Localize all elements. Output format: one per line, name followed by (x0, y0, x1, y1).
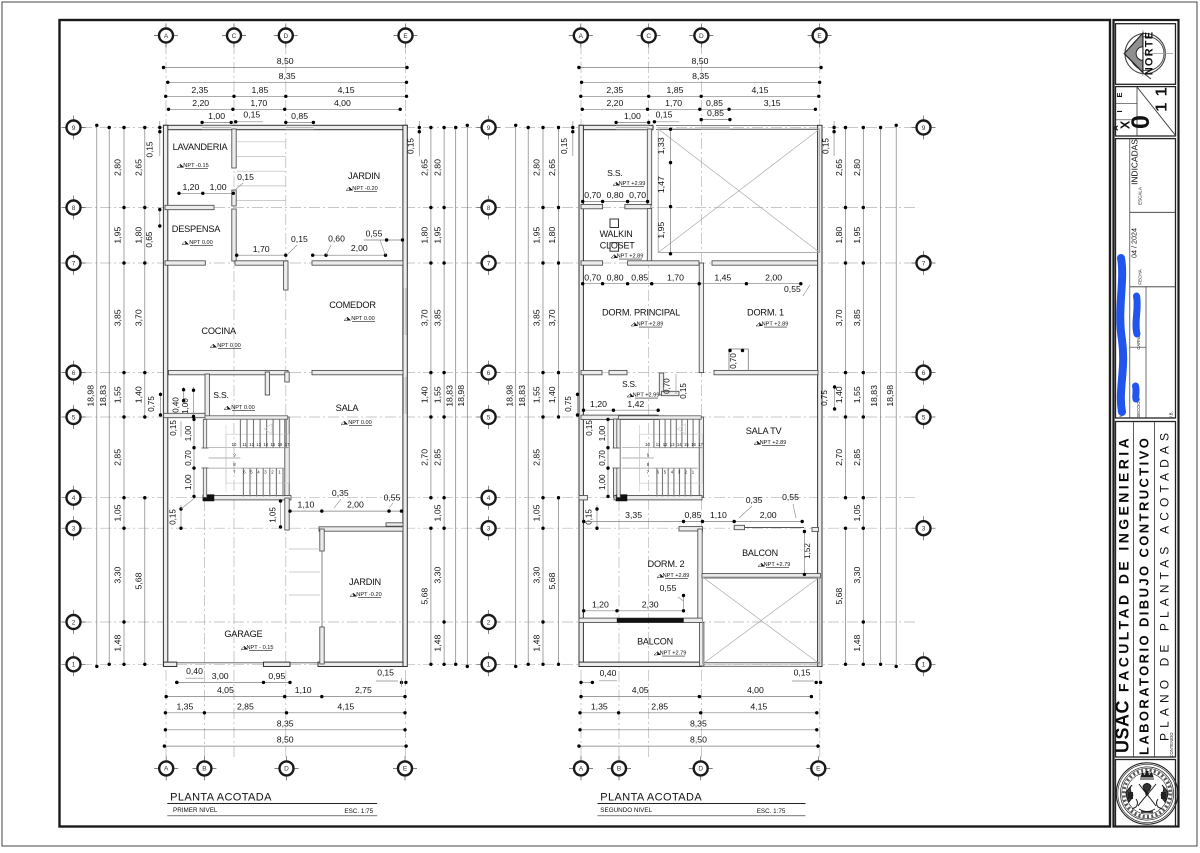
svg-text:2,65: 2,65 (133, 159, 143, 176)
svg-text:FECHA: FECHA (1138, 269, 1143, 284)
svg-text:2,80: 2,80 (433, 159, 443, 176)
svg-text:2,85: 2,85 (433, 449, 443, 466)
svg-text:18,83: 18,83 (869, 385, 879, 407)
svg-text:3,70: 3,70 (133, 309, 143, 326)
svg-text:2,80: 2,80 (532, 159, 542, 176)
svg-text:8,50: 8,50 (692, 56, 709, 66)
svg-text:0,15: 0,15 (407, 138, 416, 154)
svg-text:2,20: 2,20 (606, 98, 623, 108)
svg-text:0,40: 0,40 (186, 666, 203, 676)
svg-text:12: 12 (663, 442, 668, 447)
svg-text:0,15: 0,15 (585, 420, 594, 436)
svg-text:1,20: 1,20 (182, 182, 199, 192)
svg-text:0,15: 0,15 (656, 109, 673, 119)
svg-text:0,70: 0,70 (584, 272, 601, 282)
svg-text:7: 7 (487, 260, 491, 267)
svg-text:SALA: SALA (336, 403, 360, 413)
svg-text:1,05: 1,05 (268, 507, 277, 523)
svg-text:0,15: 0,15 (146, 141, 155, 157)
svg-text:3,85: 3,85 (113, 309, 123, 326)
svg-text:2,85: 2,85 (532, 449, 542, 466)
svg-text:0,55: 0,55 (384, 493, 401, 503)
svg-text:7: 7 (922, 260, 926, 267)
svg-text:0,15: 0,15 (679, 383, 688, 399)
svg-text:1,33: 1,33 (656, 137, 666, 154)
svg-text:USACFACULTAD DE INGENIERIA: USACFACULTAD DE INGENIERIA (1113, 435, 1133, 753)
svg-text:0,35: 0,35 (332, 488, 349, 498)
svg-text:8: 8 (487, 205, 491, 212)
svg-text:4,05: 4,05 (632, 685, 649, 695)
svg-text:0,80: 0,80 (607, 272, 624, 282)
svg-text:1,55: 1,55 (852, 386, 862, 403)
svg-text:11: 11 (242, 442, 247, 447)
svg-text:4,15: 4,15 (338, 85, 355, 95)
svg-text:C: C (232, 33, 237, 40)
svg-text:1,85: 1,85 (667, 85, 684, 95)
svg-text:0,15: 0,15 (377, 668, 394, 678)
svg-text:BALCON: BALCON (742, 548, 778, 558)
svg-text:5,68: 5,68 (133, 572, 143, 589)
svg-text:15: 15 (684, 442, 689, 447)
svg-text:S.S.: S.S. (622, 380, 637, 389)
svg-text:PRIMER NIVEL: PRIMER NIVEL (173, 807, 218, 814)
svg-text:8,50: 8,50 (690, 735, 707, 745)
svg-text:0,15: 0,15 (237, 172, 254, 182)
svg-text:0,85: 0,85 (631, 272, 648, 282)
svg-text:NPT +2.79: NPT +2.79 (764, 562, 791, 568)
svg-text:0,15: 0,15 (794, 668, 811, 678)
svg-text:NPT +2.99: NPT +2.99 (633, 393, 660, 399)
svg-text:1,48: 1,48 (433, 634, 443, 651)
svg-text:GARAGE: GARAGE (224, 629, 262, 639)
svg-text:5,68: 5,68 (834, 588, 844, 605)
svg-text:NPT +2.79: NPT +2.79 (660, 651, 687, 657)
svg-text:1 1: 1 1 (1154, 86, 1171, 111)
svg-text:3,85: 3,85 (532, 309, 542, 326)
svg-text:2,35: 2,35 (191, 85, 208, 95)
svg-text:1,10: 1,10 (710, 510, 727, 520)
svg-text:0,75: 0,75 (564, 396, 573, 412)
svg-text:11: 11 (656, 442, 661, 447)
svg-text:16: 16 (278, 442, 283, 447)
svg-text:6: 6 (487, 370, 491, 377)
svg-text:1,00: 1,00 (208, 111, 225, 121)
svg-text:3,30: 3,30 (852, 566, 862, 583)
svg-text:ESC. 1:75: ESC. 1:75 (344, 808, 373, 815)
svg-text:8: 8 (72, 205, 76, 212)
svg-text:3,30: 3,30 (532, 566, 542, 583)
svg-text:17: 17 (285, 442, 290, 447)
svg-text:SEGUNDO NIVEL: SEGUNDO NIVEL (600, 807, 652, 814)
svg-text:3,00: 3,00 (212, 671, 229, 681)
svg-text:0,55: 0,55 (660, 583, 677, 593)
svg-text:2: 2 (72, 619, 76, 626)
svg-text:NPT -0.15: NPT -0.15 (183, 163, 208, 169)
svg-text:0: 0 (1127, 115, 1155, 129)
svg-text:2,75: 2,75 (355, 685, 372, 695)
svg-text:2,00: 2,00 (351, 243, 368, 253)
svg-text:8,35: 8,35 (279, 71, 296, 81)
svg-text:COMEDOR: COMEDOR (329, 300, 376, 310)
svg-text:NPT +2.89: NPT +2.89 (760, 440, 787, 446)
svg-text:1,70: 1,70 (667, 272, 684, 282)
svg-text:3,15: 3,15 (764, 98, 781, 108)
svg-text:DORM. PRINCIPAL: DORM. PRINCIPAL (602, 308, 680, 318)
svg-text:1,05: 1,05 (532, 504, 542, 521)
svg-text:8,35: 8,35 (692, 71, 709, 81)
svg-text:2,80: 2,80 (113, 159, 123, 176)
svg-text:BALCON: BALCON (637, 637, 673, 647)
svg-text:13: 13 (256, 442, 261, 447)
svg-text:3: 3 (922, 526, 926, 533)
svg-text:1,35: 1,35 (176, 701, 193, 711)
svg-text:0,85: 0,85 (291, 111, 308, 121)
svg-text:0,15: 0,15 (169, 509, 178, 525)
svg-text:2,85: 2,85 (237, 701, 254, 711)
svg-text:5,68: 5,68 (547, 572, 557, 589)
svg-text:1,40: 1,40 (420, 386, 430, 403)
svg-text:1,55: 1,55 (113, 386, 123, 403)
svg-text:4,00: 4,00 (747, 685, 764, 695)
svg-text:8,50: 8,50 (277, 56, 294, 66)
svg-text:0,55: 0,55 (366, 229, 383, 239)
svg-text:DESPENSA: DESPENSA (172, 224, 222, 234)
svg-text:0,40: 0,40 (600, 668, 617, 678)
svg-text:1,80: 1,80 (547, 227, 557, 244)
svg-text:1,00: 1,00 (598, 474, 607, 490)
svg-text:0,70: 0,70 (663, 378, 672, 394)
svg-text:NPT +2.89: NPT +2.89 (762, 322, 789, 328)
svg-text:DORM. 2: DORM. 2 (648, 559, 685, 569)
svg-text:CLOSET: CLOSET (600, 241, 636, 251)
svg-text:3,30: 3,30 (433, 566, 443, 583)
svg-text:1,20: 1,20 (590, 399, 607, 409)
svg-text:2,20: 2,20 (192, 98, 209, 108)
svg-text:C: C (646, 33, 651, 40)
svg-text:1,00: 1,00 (184, 425, 193, 441)
svg-text:0,70: 0,70 (184, 450, 193, 466)
svg-text:18,98: 18,98 (456, 385, 466, 407)
svg-text:1,00: 1,00 (210, 182, 227, 192)
svg-text:0,15: 0,15 (585, 509, 594, 525)
svg-text:1,70: 1,70 (253, 244, 270, 254)
svg-text:0,15: 0,15 (169, 420, 178, 436)
svg-text:14: 14 (263, 442, 268, 447)
svg-text:3,70: 3,70 (834, 309, 844, 326)
svg-text:0,75: 0,75 (820, 390, 829, 406)
svg-text:0,65: 0,65 (145, 231, 154, 247)
svg-text:0,85: 0,85 (707, 108, 724, 118)
svg-text:E: E (817, 33, 822, 40)
svg-text:ESC. 1:75: ESC. 1:75 (757, 808, 786, 815)
svg-text:1,80: 1,80 (834, 227, 844, 244)
svg-text:E: E (403, 33, 408, 40)
svg-text:2: 2 (487, 619, 491, 626)
svg-text:1,40: 1,40 (133, 386, 143, 403)
svg-text:1: 1 (487, 662, 491, 669)
svg-text:16: 16 (691, 442, 696, 447)
svg-text:2,35: 2,35 (606, 85, 623, 95)
svg-text:A: A (164, 766, 169, 773)
svg-text:0,80: 0,80 (607, 190, 624, 200)
svg-text:NPT - 0.15: NPT - 0.15 (247, 645, 274, 651)
svg-text:PLANTA ACOTADA: PLANTA ACOTADA (600, 792, 702, 804)
svg-text:4,00: 4,00 (334, 98, 351, 108)
svg-text:3,85: 3,85 (433, 309, 443, 326)
svg-text:NPT -0.20: NPT -0.20 (352, 186, 377, 192)
svg-text:A: A (164, 33, 169, 40)
svg-text:1,95: 1,95 (532, 227, 542, 244)
svg-text:NORTE: NORTE (1144, 31, 1156, 76)
svg-text:1,48: 1,48 (113, 634, 123, 651)
svg-text:0,75: 0,75 (147, 396, 156, 412)
svg-text:S.S.: S.S. (213, 390, 228, 400)
svg-text:1,05: 1,05 (852, 504, 862, 521)
svg-text:NPT +2.89: NPT +2.89 (663, 573, 690, 579)
svg-text:1: 1 (922, 662, 926, 669)
svg-text:5,68: 5,68 (420, 588, 430, 605)
svg-text:0,85: 0,85 (685, 510, 702, 520)
svg-text:8,50: 8,50 (277, 735, 294, 745)
svg-text:2,65: 2,65 (547, 159, 557, 176)
svg-text:9: 9 (922, 125, 926, 132)
svg-text:1,48: 1,48 (532, 634, 542, 651)
svg-text:E: E (816, 766, 821, 773)
svg-text:1,00: 1,00 (624, 111, 641, 121)
svg-text:0,15: 0,15 (560, 138, 569, 154)
svg-text:CONTENIDO: CONTENIDO (1169, 732, 1174, 758)
svg-text:1: 1 (72, 662, 76, 669)
svg-text:2,85: 2,85 (852, 449, 862, 466)
svg-text:2,65: 2,65 (420, 159, 430, 176)
svg-text:0,15: 0,15 (291, 234, 308, 244)
svg-text:1,70: 1,70 (250, 98, 267, 108)
svg-text:5: 5 (922, 414, 926, 421)
svg-text:0,70: 0,70 (729, 353, 738, 369)
svg-text:12: 12 (249, 442, 254, 447)
svg-text:9: 9 (72, 125, 76, 132)
svg-text:5: 5 (72, 414, 76, 421)
svg-text:10: 10 (645, 442, 650, 447)
svg-text:0,85: 0,85 (706, 98, 723, 108)
svg-text:DORM. 1: DORM. 1 (747, 308, 784, 318)
svg-text:4,15: 4,15 (337, 701, 354, 711)
svg-text:E: E (403, 766, 408, 773)
svg-text:1,95: 1,95 (113, 227, 123, 244)
svg-text:I: I (1115, 110, 1124, 112)
svg-text:JARDIN: JARDIN (349, 577, 381, 587)
svg-text:18,83: 18,83 (98, 385, 108, 407)
svg-text:04 / 2024: 04 / 2024 (1130, 228, 1139, 258)
svg-text:18,98: 18,98 (504, 385, 514, 407)
svg-text:A: A (579, 766, 584, 773)
svg-text:1,80: 1,80 (420, 227, 430, 244)
svg-text:1,55: 1,55 (532, 386, 542, 403)
svg-text:4,15: 4,15 (750, 701, 767, 711)
svg-text:15: 15 (271, 442, 276, 447)
svg-text:1,45: 1,45 (714, 272, 731, 282)
svg-text:0,15: 0,15 (822, 138, 831, 154)
svg-text:3: 3 (487, 526, 491, 533)
svg-text:2,00: 2,00 (765, 272, 782, 282)
svg-text:1,47: 1,47 (656, 176, 666, 193)
svg-text:8,35: 8,35 (690, 718, 707, 728)
svg-text:NPT -0.20: NPT -0.20 (356, 592, 381, 598)
svg-text:0,95: 0,95 (268, 671, 285, 681)
svg-text:0,60: 0,60 (328, 234, 345, 244)
svg-text:0,40: 0,40 (171, 397, 180, 413)
svg-text:ESCALA: ESCALA (1138, 187, 1143, 205)
svg-text:0,70: 0,70 (584, 190, 601, 200)
svg-text:S.S.: S.S. (607, 168, 622, 178)
svg-text:13: 13 (670, 442, 675, 447)
svg-text:1,48: 1,48 (852, 634, 862, 651)
svg-text:D: D (283, 33, 288, 40)
svg-text:1,00: 1,00 (181, 398, 190, 414)
svg-text:18,98: 18,98 (85, 385, 95, 407)
svg-text:D: D (284, 766, 289, 773)
svg-text:COCINA: COCINA (201, 326, 237, 336)
svg-text:1,55: 1,55 (433, 386, 443, 403)
svg-text:10: 10 (232, 442, 237, 447)
svg-text:18,98: 18,98 (885, 385, 895, 407)
svg-text:1,42: 1,42 (627, 399, 644, 409)
svg-text:V.B.: V.B. (1169, 411, 1174, 419)
svg-text:SALA TV: SALA TV (746, 426, 783, 436)
svg-text:14: 14 (677, 442, 682, 447)
svg-text:1,00: 1,00 (598, 425, 607, 441)
svg-text:0,15: 0,15 (243, 109, 260, 119)
svg-text:PLANTA ACOTADA: PLANTA ACOTADA (170, 792, 272, 804)
svg-text:9: 9 (487, 125, 491, 132)
svg-text:INDICADAS: INDICADAS (1130, 139, 1140, 185)
svg-text:3,30: 3,30 (113, 566, 123, 583)
svg-text:B: B (202, 766, 206, 773)
svg-text:3,70: 3,70 (420, 309, 430, 326)
svg-text:2,70: 2,70 (834, 449, 844, 466)
svg-text:7: 7 (72, 260, 76, 267)
svg-text:4: 4 (72, 495, 76, 502)
svg-text:NPT 0.00: NPT 0.00 (231, 405, 255, 411)
svg-text:A: A (579, 33, 584, 40)
svg-text:2,80: 2,80 (852, 159, 862, 176)
svg-text:3: 3 (72, 526, 76, 533)
svg-text:0,70: 0,70 (598, 450, 607, 466)
svg-text:D: D (698, 766, 703, 773)
svg-text:1,80: 1,80 (133, 227, 143, 244)
svg-text:1,95: 1,95 (852, 227, 862, 244)
svg-text:NPT 0.00: NPT 0.00 (189, 240, 213, 246)
svg-text:2,85: 2,85 (651, 701, 668, 711)
svg-text:1,40: 1,40 (834, 386, 844, 403)
svg-text:NPT +2.99: NPT +2.99 (619, 181, 646, 187)
svg-text:6: 6 (922, 370, 926, 377)
svg-text:2,30: 2,30 (642, 599, 659, 609)
svg-text:1,00: 1,00 (184, 474, 193, 490)
svg-text:1,35: 1,35 (591, 701, 608, 711)
svg-text:PLANO DE PLANTAS ACOTADAS: PLANO DE PLANTAS ACOTADAS (1158, 428, 1172, 741)
svg-text:LABORATORIO DIBUJO CONTRUCTIVO: LABORATORIO DIBUJO CONTRUCTIVO (1137, 436, 1152, 755)
svg-text:0,70: 0,70 (629, 190, 646, 200)
svg-text:6: 6 (72, 370, 76, 377)
svg-text:17: 17 (698, 442, 703, 447)
svg-text:1,40: 1,40 (547, 386, 557, 403)
svg-text:E: E (1115, 92, 1124, 97)
svg-text:3,85: 3,85 (852, 309, 862, 326)
svg-text:1,85: 1,85 (251, 85, 268, 95)
svg-text:1,05: 1,05 (113, 504, 123, 521)
svg-text:1,05: 1,05 (433, 504, 443, 521)
svg-text:4,15: 4,15 (752, 85, 769, 95)
svg-text:2,65: 2,65 (834, 159, 844, 176)
svg-text:2,70: 2,70 (420, 449, 430, 466)
svg-text:NPT 0.00: NPT 0.00 (348, 420, 372, 426)
svg-text:3,35: 3,35 (625, 510, 642, 520)
svg-text:0,35: 0,35 (746, 495, 763, 505)
svg-text:1,10: 1,10 (295, 685, 312, 695)
svg-text:D: D (699, 33, 704, 40)
svg-text:2,00: 2,00 (347, 500, 364, 510)
svg-text:18,83: 18,83 (444, 385, 454, 407)
svg-text:4,05: 4,05 (217, 685, 234, 695)
svg-text:0,55: 0,55 (784, 284, 801, 294)
svg-text:18,83: 18,83 (517, 385, 527, 407)
svg-text:LAVANDERIA: LAVANDERIA (173, 142, 229, 152)
svg-text:8,35: 8,35 (277, 718, 294, 728)
svg-text:JARDIN: JARDIN (348, 171, 380, 181)
svg-text:NPT 0.00: NPT 0.00 (351, 316, 375, 322)
svg-text:3,70: 3,70 (547, 309, 557, 326)
svg-text:2,00: 2,00 (760, 510, 777, 520)
svg-text:1,10: 1,10 (297, 500, 314, 510)
svg-text:B: B (617, 766, 621, 773)
svg-text:NPT +2.89: NPT +2.89 (617, 254, 644, 260)
svg-text:1,70: 1,70 (665, 98, 682, 108)
svg-text:2,85: 2,85 (113, 449, 123, 466)
svg-text:1,95: 1,95 (656, 222, 666, 239)
svg-text:4: 4 (487, 495, 491, 502)
svg-text:1,20: 1,20 (592, 599, 609, 609)
svg-text:0,55: 0,55 (782, 492, 799, 502)
svg-text:NPT 0.00: NPT 0.00 (217, 343, 241, 349)
svg-text:1,95: 1,95 (433, 227, 443, 244)
svg-text:5: 5 (487, 414, 491, 421)
svg-text:NPT +2.89: NPT +2.89 (637, 322, 664, 328)
svg-text:WALKIN: WALKIN (600, 229, 633, 239)
